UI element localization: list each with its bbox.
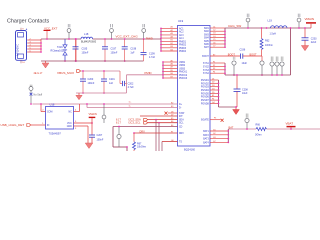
svg-text:BAT: BAT — [229, 125, 234, 129]
svg-text:D7: D7 — [171, 114, 173, 116]
wire STAT stub — [168, 112, 178, 114]
svg-text:BAT4: BAT4 — [203, 141, 209, 144]
pin numbers SW — [213, 26, 215, 47]
svg-text:PGND1: PGND1 — [201, 80, 210, 82]
wire PGND bus vertical — [218, 80, 220, 107]
svg-text:C200: C200 — [88, 78, 94, 81]
svg-text:F3: F3 — [213, 68, 215, 70]
wire DRV — [133, 130, 177, 133]
wire CD — [113, 127, 178, 152]
power flag VBAT — [286, 122, 296, 130]
svg-text:TS5A4597: TS5A4597 — [49, 132, 62, 136]
svg-text:STAT: STAT — [179, 112, 185, 115]
svg-text:B1: B1 — [171, 40, 173, 42]
wire connector pin 3 — [27, 45, 41, 47]
svg-text:C201: C201 — [109, 78, 115, 81]
svg-text:F2: F2 — [213, 65, 215, 67]
wire BOOT right — [243, 55, 262, 57]
wire USB bus vertical x163 — [162, 62, 164, 78]
svg-text:C4: C4 — [213, 36, 215, 38]
wire CHG_SW y28 — [225, 27, 311, 29]
svg-text:C197: C197 — [111, 47, 117, 50]
svg-text:D3: D3 — [212, 85, 214, 87]
svg-text:10Ohm: 10Ohm — [265, 44, 273, 47]
ground arrow under connector — [42, 61, 49, 68]
svg-text:CHG_SW: CHG_SW — [228, 24, 241, 28]
svg-text:SW7: SW7 — [204, 47, 210, 49]
wire PGND rail y107 — [219, 106, 238, 108]
wire BGATE stub with no-connect — [210, 118, 224, 122]
svg-text:BOOT: BOOT — [250, 53, 258, 56]
svg-text:C1: C1 — [213, 26, 215, 28]
svg-text:G3: G3 — [213, 137, 216, 139]
port USB_xCHG_DET — [1, 123, 46, 127]
testpoint circle TP-C — [142, 24, 146, 40]
wire U18 GND to ground — [74, 126, 89, 143]
svg-text:CD: CD — [179, 127, 183, 129]
capacitor C202 — [120, 71, 134, 93]
svg-text:TS: TS — [179, 142, 182, 144]
pin numbers BAT — [213, 129, 216, 142]
svg-text:8.1T: 8.1T — [116, 122, 121, 125]
svg-text:E1: E1 — [212, 95, 214, 97]
testpoint circle TP-H — [102, 103, 106, 123]
svg-text:C203: C203 — [311, 37, 317, 40]
capacitor C201 — [101, 70, 115, 94]
svg-text:F6: F6 — [212, 99, 214, 101]
svg-text:AC1: AC1 — [179, 27, 184, 30]
svg-text:PMOU1: PMOU1 — [179, 72, 188, 74]
svg-text:C199: C199 — [149, 53, 155, 56]
svg-text:E3: E3 — [171, 106, 173, 108]
wire connector pin 5 — [27, 51, 41, 53]
svg-text:L18: L18 — [84, 32, 89, 36]
wire SYS bus vertical x225 — [224, 63, 226, 75]
capacitor C208 — [234, 74, 249, 107]
svg-text:D-: D- — [129, 105, 131, 107]
svg-text:USB1: USB1 — [179, 62, 186, 64]
wire ground rail y93 — [76, 92, 127, 94]
svg-text:B3: B3 — [171, 46, 173, 48]
svg-text:No Stuff: No Stuff — [34, 94, 43, 97]
svg-text:1.5uH: 1.5uH — [270, 33, 277, 36]
svg-text:B7: B7 — [171, 76, 173, 78]
power flag VMAIN top — [305, 17, 317, 28]
svg-text:G6: G6 — [171, 140, 174, 142]
svg-text:4E.G.17: 4E.G.17 — [34, 72, 43, 75]
pin numbers AC/PMID — [171, 26, 173, 52]
svg-text:E4: E4 — [171, 125, 173, 127]
svg-text:SYS1: SYS1 — [203, 63, 210, 65]
svg-text:F7: F7 — [171, 131, 173, 133]
svg-text:PGND8: PGND8 — [201, 103, 210, 105]
svg-text:F5: F5 — [214, 118, 216, 120]
svg-text:PGND5: PGND5 — [201, 93, 210, 95]
svg-text:F4: F4 — [213, 72, 215, 74]
svg-text:22uF: 22uF — [311, 41, 317, 44]
port I2C3_SCL — [116, 121, 178, 125]
svg-text:VMAIN: VMAIN — [305, 17, 315, 21]
capacitor C198 — [122, 38, 137, 62]
wire SCL pull vertical — [158, 123, 160, 151]
svg-text:A1: A1 — [171, 26, 173, 29]
svg-text:SCL: SCL — [179, 123, 184, 125]
wire U18 VCC — [74, 121, 93, 124]
wire SW bus vertical x225 — [224, 28, 226, 47]
svg-text:E6: E6 — [171, 121, 173, 123]
junction dots SW bus — [224, 30, 226, 48]
svg-text:G2: G2 — [213, 133, 216, 135]
wire D+ rail y104 — [33, 103, 178, 105]
svg-text:10uF: 10uF — [242, 62, 248, 65]
svg-text:C3: C3 — [213, 33, 215, 35]
wires BAT pin rows — [210, 131, 228, 142]
svg-text:100nF: 100nF — [82, 52, 89, 55]
svg-text:BOOT: BOOT — [228, 53, 236, 56]
svg-text:SYS2: SYS2 — [203, 66, 210, 68]
svg-text:100nF: 100nF — [97, 139, 104, 142]
capacitor C207 — [89, 134, 104, 143]
svg-text:IN: IN — [47, 125, 50, 127]
svg-text:USB_xCHG_DET: USB_xCHG_DET — [1, 123, 25, 127]
svg-text:BLM41PG600: BLM41PG600 — [81, 41, 97, 44]
svg-text:D2: D2 — [212, 82, 214, 84]
svg-text:C5: C5 — [213, 39, 215, 41]
resistor R67 — [133, 133, 147, 151]
svg-text:VCC: VCC — [67, 123, 72, 125]
wire connector pin 4 — [27, 48, 41, 50]
svg-text:A2: A2 — [171, 29, 173, 32]
svg-text:B2: B2 — [171, 43, 173, 45]
svg-text:A3: A3 — [171, 32, 173, 35]
svg-text:T216: T216 — [57, 46, 63, 49]
svg-text:SW4: SW4 — [204, 38, 210, 40]
svg-text:B6: B6 — [171, 73, 173, 75]
svg-text:4.7uF: 4.7uF — [128, 86, 135, 89]
svg-text:100nF: 100nF — [111, 52, 118, 55]
svg-text:DRV: DRV — [179, 133, 184, 135]
wire connector bus vertical — [40, 39, 42, 52]
IC U18 box — [46, 102, 74, 135]
ground arrow PGND — [233, 106, 240, 114]
svg-text:GND: GND — [67, 126, 72, 128]
svg-text:1uF: 1uF — [109, 82, 114, 85]
svg-text:G7: G7 — [213, 141, 216, 143]
svg-text:E5: E5 — [171, 118, 173, 120]
svg-text:C196: C196 — [240, 48, 246, 51]
svg-text:PMID: PMID — [145, 71, 152, 75]
testpoint circle TP-F — [297, 14, 301, 29]
svg-text:D6: D6 — [171, 111, 173, 113]
junction dots USB bus — [162, 61, 164, 79]
svg-text:10uF: 10uF — [242, 92, 248, 95]
svg-text:DRV: DRV — [140, 130, 146, 133]
ground arrow U18 — [85, 143, 93, 149]
svg-text:PMID2: PMID2 — [179, 45, 187, 47]
testpoint circle TP-D — [245, 114, 249, 130]
svg-text:A7: A7 — [171, 66, 173, 69]
wire TS — [162, 142, 178, 152]
svg-text:U18: U18 — [50, 102, 55, 106]
svg-text:A6: A6 — [171, 63, 173, 66]
svg-text:B4: B4 — [171, 49, 173, 51]
capacitor C196 — [240, 48, 248, 64]
svg-text:VMAIN: VMAIN — [89, 112, 97, 116]
wire BAT y129 — [228, 128, 256, 130]
svg-text:G1: G1 — [213, 129, 216, 131]
IC U19 box — [178, 19, 211, 151]
wires PGND pin rows — [210, 80, 219, 103]
svg-text:SW5: SW5 — [204, 41, 210, 43]
wires SW pin rows — [210, 28, 225, 47]
svg-text:PGND2: PGND2 — [201, 83, 210, 85]
wire SYS rail y75 — [225, 74, 291, 76]
svg-text:SW3: SW3 — [204, 34, 210, 36]
svg-text:100nF: 100nF — [88, 82, 95, 85]
svg-text:AC4: AC4 — [179, 37, 184, 40]
power flag VCC_EXT — [44, 27, 58, 40]
inductor L18 BLM41PG600 — [81, 32, 97, 43]
connector bottom pin stub — [20, 60, 22, 63]
svg-text:1uF: 1uF — [130, 52, 135, 55]
wire connector pin 1 — [27, 39, 41, 41]
capacitor C200 — [80, 70, 95, 94]
svg-text:B5: B5 — [171, 70, 173, 72]
wires SYS pin rows — [210, 63, 225, 73]
ground arrow rail y93 — [76, 93, 82, 100]
svg-text:PMOU3: PMOU3 — [179, 78, 188, 80]
svg-text:A5: A5 — [171, 59, 173, 62]
svg-text:SYS4: SYS4 — [203, 73, 210, 75]
svg-text:AC3: AC3 — [179, 34, 184, 37]
svg-text:VBUS_MUX: VBUS_MUX — [57, 71, 74, 75]
svg-text:Charger Contacts: Charger Contacts — [7, 18, 50, 24]
no-connect X STAT — [165, 112, 168, 115]
svg-text:C202: C202 — [128, 83, 134, 86]
resistor R66 — [255, 123, 267, 136]
svg-text:PGND6: PGND6 — [201, 97, 210, 99]
svg-text:USB2: USB2 — [179, 65, 186, 67]
svg-text:C6: C6 — [213, 42, 215, 44]
svg-text:C208: C208 — [242, 88, 248, 91]
svg-text:SYS3: SYS3 — [203, 70, 210, 72]
resistor R62 — [260, 27, 273, 56]
wire U18 COM to rail — [40, 103, 45, 111]
wire INT — [140, 115, 178, 117]
svg-text:SW1: SW1 — [204, 28, 210, 30]
capacitor C195 — [73, 38, 89, 62]
testpoint circle TP-I — [117, 126, 121, 147]
pin numbers SYS — [213, 61, 215, 73]
svg-text:4.7uF: 4.7uF — [149, 56, 156, 59]
testpoint no-stuff circle — [29, 85, 42, 105]
wire TVS second leg — [75, 39, 77, 61]
port VBUS_MUX — [34, 70, 81, 75]
svg-text:PMID1: PMID1 — [179, 41, 187, 43]
svg-text:D1: D1 — [212, 78, 214, 80]
svg-text:PGND7: PGND7 — [201, 100, 210, 102]
svg-text:C198: C198 — [130, 47, 136, 50]
wire L19 to SYS rail vertical x290.5 — [290, 28, 292, 75]
svg-text:D5: D5 — [212, 92, 214, 94]
wire main bus VCC_EXT y39 — [41, 38, 81, 40]
svg-text:AC2: AC2 — [179, 31, 184, 34]
wire D- rail y107.5 — [86, 104, 88, 108]
testpoint circle boot end — [260, 56, 264, 76]
wire BAT bus vertical — [227, 129, 229, 142]
svg-text:PGND3: PGND3 — [201, 87, 210, 89]
svg-text:F1: F1 — [213, 61, 215, 63]
wire lower rail y61 — [41, 60, 144, 62]
svg-text:SW6: SW6 — [204, 44, 210, 46]
testpoint circle TP-G — [232, 57, 236, 76]
svg-text:10kOhm: 10kOhm — [137, 146, 146, 149]
svg-text:R66: R66 — [256, 123, 261, 126]
power flag VMAIN mid — [89, 112, 97, 135]
svg-text:VCC_EXT_CHG: VCC_EXT_CHG — [116, 35, 139, 39]
svg-text:E2: E2 — [171, 102, 173, 104]
svg-text:PGND4: PGND4 — [201, 90, 210, 92]
svg-text:BQ24160: BQ24160 — [184, 147, 196, 151]
wire PMID mid y74.5 — [127, 74, 164, 76]
svg-text:PMOU2: PMOU2 — [179, 75, 188, 77]
TVS T216 RClamp1621P — [51, 39, 68, 62]
junction dots AC bus — [160, 28, 162, 52]
svg-text:BAT2: BAT2 — [203, 134, 209, 137]
U19 right pin names — [201, 28, 210, 144]
capacitor C197 — [102, 38, 118, 62]
testpoint trio circles — [270, 57, 284, 76]
svg-text:SDA: SDA — [179, 119, 184, 122]
junction dots connector bus — [40, 42, 42, 53]
pin numbers USB/PMOUT — [171, 59, 173, 78]
inductor L19 — [266, 19, 287, 36]
pin numbers U19 left lower — [171, 102, 174, 142]
svg-text:A-PJ942YC: A-PJ942YC — [16, 44, 19, 56]
svg-text:C195: C195 — [82, 47, 88, 50]
pin numbers PGND — [212, 78, 215, 103]
svg-text:D-: D- — [179, 108, 182, 110]
testpoint circle TP-A — [67, 24, 71, 40]
wires AC/PMID pin rows — [161, 28, 178, 51]
wire U18 NC up — [74, 104, 80, 112]
testpoint circle TP-B — [110, 24, 114, 40]
svg-text:0Ohm: 0Ohm — [255, 134, 262, 137]
svg-text:NC: NC — [68, 112, 72, 114]
capacitor C203 — [302, 27, 318, 45]
svg-text:I2C3_SCL: I2C3_SCL — [129, 121, 142, 125]
svg-text:BAT1: BAT1 — [203, 130, 209, 133]
svg-text:U19: U19 — [178, 19, 184, 23]
wires USB/PMOUT pin rows — [163, 62, 178, 78]
svg-text:C207: C207 — [97, 134, 103, 137]
svg-text:D4: D4 — [212, 88, 214, 90]
svg-text:C2: C2 — [213, 30, 215, 32]
svg-text:INT: INT — [179, 116, 183, 118]
svg-text:BOOT: BOOT — [202, 56, 209, 58]
port I2C3_SDA — [116, 117, 178, 121]
wire SDA pull vertical — [155, 120, 157, 151]
svg-text:PMID: PMID — [146, 36, 153, 40]
connector top pin stub — [20, 28, 22, 31]
svg-text:A4: A4 — [171, 35, 173, 38]
svg-text:PMID4: PMID4 — [179, 51, 187, 53]
svg-text:SW2: SW2 — [204, 31, 210, 33]
svg-text:VBAT: VBAT — [286, 122, 294, 126]
svg-text:PMID3: PMID3 — [179, 48, 187, 50]
U19 left pin names — [179, 27, 188, 143]
wire VBUS_MUX y71 — [81, 70, 121, 72]
svg-text:C7: C7 — [213, 46, 215, 48]
svg-text:RClamp1621P: RClamp1621P — [51, 49, 67, 52]
wire connector pin 2 — [27, 42, 41, 44]
svg-text:USB3: USB3 — [179, 68, 186, 70]
svg-text:G4: G4 — [212, 102, 215, 104]
wire BOOT stub — [210, 55, 240, 57]
svg-text:BAT3: BAT3 — [203, 138, 209, 141]
svg-text:BGATE: BGATE — [201, 119, 209, 122]
svg-text:L19: L19 — [268, 19, 273, 23]
testpoint circle TP-E — [246, 14, 250, 29]
svg-text:R62: R62 — [265, 40, 270, 43]
svg-text:COM: COM — [47, 112, 52, 114]
wire AC bus vertical x161 — [160, 28, 162, 51]
ground arrow C203 — [301, 46, 308, 51]
connector J1 body — [16, 31, 27, 61]
capacitor C199 — [141, 39, 156, 61]
